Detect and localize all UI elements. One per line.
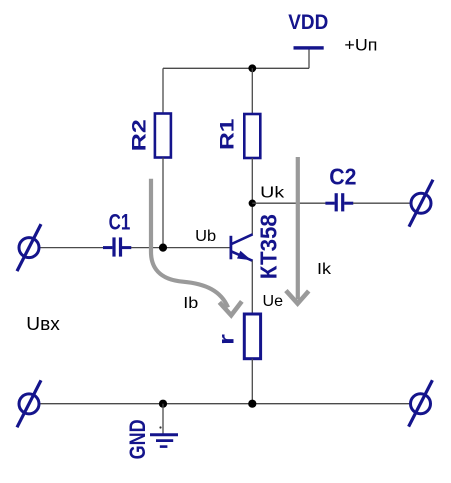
transistor Q1 KT358 bbox=[231, 234, 253, 260]
power symbol VDD bbox=[294, 46, 324, 49]
svg-text:Uвх: Uвх bbox=[26, 314, 60, 334]
capacitor C2 bbox=[325, 193, 353, 211]
wire Uk to C2 bbox=[252, 202, 326, 204]
current arrow Ik bbox=[286, 157, 309, 304]
port output bbox=[409, 180, 433, 227]
wire ground stub bbox=[162, 404, 164, 434]
resistor R1 bbox=[244, 114, 260, 158]
svg-text:r: r bbox=[215, 334, 238, 345]
wire input to C1 bbox=[41, 247, 104, 249]
wire R1 to collector bbox=[251, 158, 253, 235]
wire C1 to base bbox=[131, 247, 230, 249]
junction dot ground bbox=[159, 400, 167, 408]
capacitor C1 bbox=[103, 237, 131, 256]
port bottom-left bbox=[17, 380, 41, 427]
svg-text:R1: R1 bbox=[218, 118, 239, 150]
node Uk junction dot bbox=[249, 200, 256, 207]
junction dot top rail bbox=[248, 64, 256, 72]
current arrow Ib bbox=[151, 179, 242, 315]
port bottom-right bbox=[409, 380, 433, 426]
svg-text:Ub: Ub bbox=[195, 228, 216, 245]
stray dot bbox=[159, 426, 161, 428]
wire R1 top lead bbox=[251, 68, 253, 114]
svg-text:C1: C1 bbox=[109, 209, 131, 234]
wire emitter to r bbox=[251, 261, 253, 315]
svg-text:Ib: Ib bbox=[183, 295, 198, 312]
wire top rail bbox=[163, 67, 309, 69]
node B junction dot bbox=[159, 244, 167, 252]
resistor R2 bbox=[155, 114, 171, 158]
svg-text:Ue: Ue bbox=[263, 293, 284, 310]
wire C2 to output port bbox=[353, 202, 410, 204]
wire VDD stub bbox=[308, 49, 310, 68]
svg-text:КТ358: КТ358 bbox=[256, 214, 282, 279]
wire r to ground rail bbox=[251, 359, 253, 404]
svg-text:+Uп: +Uп bbox=[344, 36, 377, 54]
wire R2 to base node bbox=[162, 158, 164, 248]
wire R2 top lead bbox=[162, 68, 164, 113]
svg-text:Uk: Uk bbox=[260, 185, 285, 202]
svg-text:GND: GND bbox=[125, 419, 150, 459]
svg-text:VDD: VDD bbox=[288, 11, 328, 34]
port input bbox=[17, 224, 41, 271]
wire bottom rail bbox=[41, 403, 410, 405]
ground symbol bbox=[150, 435, 178, 447]
svg-text:Ik: Ik bbox=[317, 261, 332, 278]
svg-text:C2: C2 bbox=[329, 163, 356, 189]
resistor r bbox=[244, 314, 260, 359]
svg-text:R2: R2 bbox=[129, 119, 150, 151]
junction dot emitter rail bbox=[248, 400, 256, 408]
